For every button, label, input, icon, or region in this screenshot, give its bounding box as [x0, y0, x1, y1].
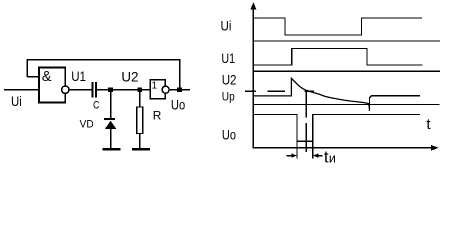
wire marker dashed vertical at threshold crossing: [305, 91, 307, 118]
wire: Ui input: [4, 89, 39, 91]
inverter gate DD2 box: [150, 80, 165, 99]
svg-text:U2: U2: [121, 69, 138, 85]
svg-text:Uo: Uo: [222, 126, 236, 142]
svg-text:Ui: Ui: [11, 93, 22, 109]
node junction at output: [177, 87, 182, 92]
NAND gate DD1 box: [39, 68, 65, 103]
wire: feedback into gate input: [27, 76, 39, 78]
tick extension right edge: [312, 141, 314, 158]
dimension arrow left: [287, 155, 293, 157]
svg-text:и: и: [329, 152, 336, 166]
svg-text:U1: U1: [221, 50, 235, 66]
axis vertical with arrow: [252, 4, 254, 149]
wire: down to diode: [110, 92, 112, 118]
axis baseline row Ui: [253, 40, 440, 42]
wire: capacitor to inverter: [97, 89, 150, 91]
svg-text:U1: U1: [71, 68, 86, 84]
wire: U1 output to capacitor: [69, 89, 92, 91]
svg-text:Up: Up: [222, 92, 235, 104]
wire: feedback top: [27, 59, 180, 61]
wire: feedback left vertical: [26, 59, 28, 77]
waveform U2 with exponential decay: [253, 78, 369, 111]
ground (resistor): [132, 148, 150, 151]
waveform Ui: [253, 18, 422, 35]
node junction at resistor branch: [137, 87, 142, 92]
svg-text:&: &: [42, 68, 52, 85]
node Up threshold dashes: [245, 90, 256, 92]
svg-text:C: C: [93, 100, 99, 112]
axis baseline row Uo with t arrow: [253, 147, 433, 149]
svg-text:Ui: Ui: [221, 18, 232, 34]
waveform Uo: [253, 114, 420, 141]
wire: feedback right vertical: [179, 59, 181, 90]
svg-text:VD: VD: [80, 119, 94, 131]
node junction at diode branch: [108, 87, 113, 92]
svg-text:U2: U2: [222, 71, 237, 87]
ground (diode): [103, 148, 121, 151]
axis baseline row U1: [253, 70, 440, 72]
svg-text:R: R: [153, 109, 162, 123]
svg-text:Uo: Uo: [171, 97, 185, 113]
dimension arrow right: [317, 155, 322, 157]
svg-text:1: 1: [152, 80, 158, 91]
tick extension left edge: [296, 141, 298, 158]
capacitor C: [92, 82, 94, 98]
resistor R: [137, 107, 143, 134]
diode VD: [104, 118, 115, 120]
waveform U1: [253, 49, 422, 66]
NAND output inversion bubble: [62, 86, 69, 93]
waveform U2 recovery step: [369, 96, 420, 111]
inverter output inversion bubble: [162, 86, 169, 93]
wire: down to resistor: [139, 92, 141, 107]
axis baseline row Up: [253, 104, 439, 106]
wire: inverter output to Uo terminal: [169, 89, 190, 91]
